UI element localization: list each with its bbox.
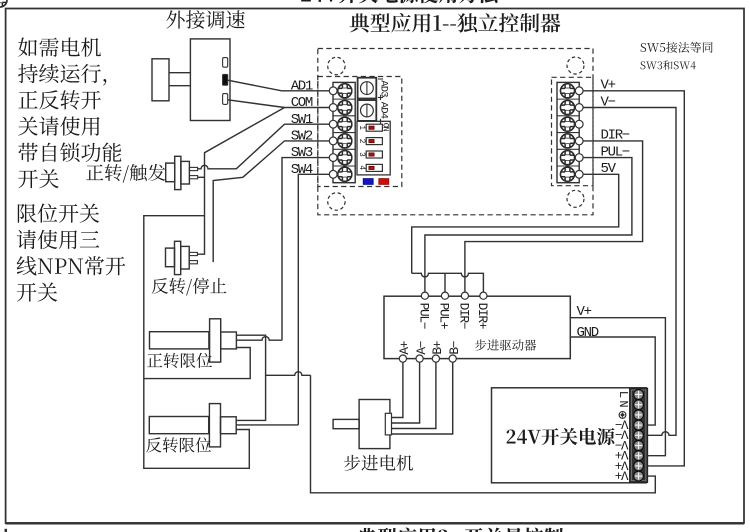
svg-text:N: N [616, 400, 630, 407]
svg-text:5V: 5V [601, 161, 617, 177]
svg-text:SW3: SW3 [291, 145, 313, 161]
svg-text:SW4: SW4 [291, 162, 313, 178]
svg-text:L: L [616, 391, 630, 398]
svg-text:AD4: AD4 [378, 102, 390, 119]
svg-text:DIR−: DIR− [457, 303, 472, 329]
svg-text:SW2: SW2 [291, 129, 313, 145]
svg-text:1: 1 [357, 125, 366, 130]
svg-text:3: 3 [357, 152, 366, 157]
svg-text:PUL−: PUL− [601, 144, 630, 160]
svg-text:A−: A− [414, 341, 429, 354]
svg-text:COM: COM [291, 95, 313, 111]
svg-text:2: 2 [357, 139, 366, 144]
svg-text:AD3: AD3 [378, 80, 390, 97]
svg-text:PUL−: PUL− [417, 303, 432, 329]
svg-text:ON: ON [381, 123, 391, 132]
svg-text:V−: V− [601, 94, 616, 110]
svg-text:4: 4 [357, 165, 366, 170]
svg-text:B+: B+ [430, 341, 445, 354]
svg-text:DIR+: DIR+ [475, 303, 490, 329]
svg-text:DIR−: DIR− [601, 128, 630, 144]
svg-text:B−: B− [447, 341, 462, 354]
svg-text:PUL+: PUL+ [437, 303, 452, 329]
svg-text:SW1: SW1 [291, 112, 313, 128]
svg-text:AD1: AD1 [291, 78, 313, 94]
svg-text:A+: A+ [397, 341, 412, 354]
svg-text:V+: V+ [601, 78, 616, 94]
svg-text:V+: V+ [615, 468, 628, 482]
svg-text:GND: GND [577, 325, 599, 341]
